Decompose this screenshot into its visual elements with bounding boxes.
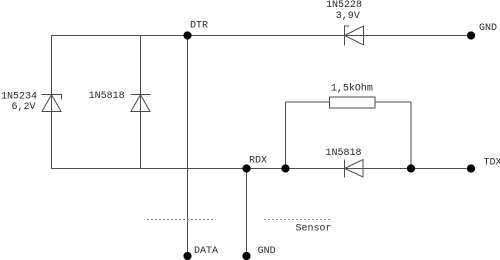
svg-text:1N5234: 1N5234: [1, 92, 37, 103]
svg-text:DTR: DTR: [190, 21, 208, 32]
svg-text:1N5228: 1N5228: [326, 0, 362, 11]
svg-text:Sensor: Sensor: [296, 224, 332, 235]
svg-text:1,5kOhm: 1,5kOhm: [331, 83, 373, 95]
svg-text:3,9V: 3,9V: [336, 11, 360, 22]
svg-text:TDX: TDX: [484, 158, 500, 169]
svg-text:1N5818: 1N5818: [89, 91, 125, 102]
svg-text:GND: GND: [479, 23, 497, 34]
svg-text:GND: GND: [258, 246, 276, 257]
svg-text:DATA: DATA: [194, 246, 218, 257]
svg-text:RDX: RDX: [249, 156, 267, 167]
svg-text:1N5818: 1N5818: [326, 148, 362, 159]
svg-text:6,2V: 6,2V: [12, 102, 36, 113]
